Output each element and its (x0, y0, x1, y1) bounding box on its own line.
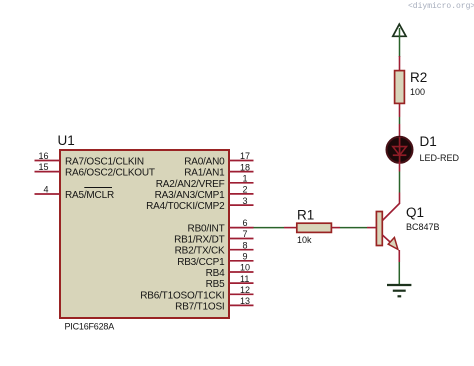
resistor R1 (297, 223, 340, 232)
pin 4 RA5/MCLR (35, 185, 114, 202)
svg-text:16: 16 (38, 151, 48, 161)
svg-text:3: 3 (243, 196, 248, 206)
wire D1 to Q1 collector (399, 162, 401, 204)
transistor Q1 (376, 204, 399, 263)
svg-text:RB3/CCP1: RB3/CCP1 (177, 257, 225, 268)
svg-text:100: 100 (410, 87, 425, 97)
svg-text:2: 2 (243, 185, 248, 195)
svg-text:RB6/T1OSO/T1CKI: RB6/T1OSO/T1CKI (140, 290, 224, 301)
svg-text:R1: R1 (297, 208, 314, 223)
wire R1 to Q1 base (340, 227, 376, 229)
pin 17 RA0/AN0 (184, 151, 253, 167)
svg-text:RA6/OSC2/CLKOUT: RA6/OSC2/CLKOUT (65, 168, 155, 179)
wire U1 pin6 to R1 (253, 227, 297, 229)
svg-text:RB1/RX/DT: RB1/RX/DT (174, 235, 225, 246)
svg-text:R2: R2 (410, 70, 427, 85)
svg-text:10k: 10k (297, 235, 312, 245)
pin 9 RB3/CCP1 (177, 252, 253, 268)
ground (387, 285, 411, 296)
wire emitter to ground (398, 262, 400, 285)
pin 11 RB5 (206, 274, 254, 290)
svg-text:PIC16F628A: PIC16F628A (65, 322, 115, 332)
pin 1 RA2/AN2/VREF (156, 174, 254, 190)
svg-text:RA2/AN2/VREF: RA2/AN2/VREF (156, 179, 225, 190)
svg-text:RA0/AN0: RA0/AN0 (184, 157, 225, 168)
pin 16 RA7/OSC1/CLKIN (35, 151, 144, 168)
svg-text:RB5: RB5 (206, 279, 225, 290)
svg-text:RB2/TX/CK: RB2/TX/CK (175, 246, 225, 257)
svg-text:D1: D1 (420, 134, 437, 149)
svg-text:U1: U1 (58, 133, 75, 148)
power symbol VCC (393, 24, 406, 36)
pin 12 RB6/T1OSO/T1CKI (140, 285, 253, 301)
svg-text:9: 9 (243, 252, 248, 262)
pin 8 RB2/TX/CK (175, 240, 254, 256)
svg-text:RA4/T0CKI/CMP2: RA4/T0CKI/CMP2 (146, 201, 225, 212)
IC U1 body (60, 150, 229, 318)
wire R2 to D1 (399, 117, 401, 137)
svg-text:11: 11 (240, 274, 249, 284)
svg-text:13: 13 (240, 296, 250, 306)
svg-text:<diymicro.org>: <diymicro.org> (408, 2, 474, 11)
svg-text:LED-RED: LED-RED (420, 153, 460, 163)
svg-text:7: 7 (243, 229, 248, 239)
resistor R2 (395, 56, 405, 117)
pin 10 RB4 (206, 263, 254, 279)
svg-text:RA1/AN1: RA1/AN1 (184, 168, 225, 179)
svg-text:12: 12 (240, 285, 250, 295)
svg-text:17: 17 (240, 151, 250, 161)
svg-text:RA3/AN3/CMP1: RA3/AN3/CMP1 (155, 190, 225, 201)
svg-text:18: 18 (240, 162, 250, 172)
pin 15 RA6/OSC2/CLKOUT (35, 162, 155, 179)
svg-text:4: 4 (43, 185, 48, 195)
svg-text:RB0/INT: RB0/INT (188, 223, 225, 234)
pin 18 RA1/AN1 (184, 162, 253, 178)
wire power to R2 (399, 28, 401, 57)
pin 3 RA4/T0CKI/CMP2 (146, 196, 253, 212)
svg-text:6: 6 (243, 218, 248, 228)
svg-text:RA5/MCLR: RA5/MCLR (65, 190, 114, 201)
svg-text:Q1: Q1 (406, 205, 424, 220)
svg-text:15: 15 (38, 162, 48, 172)
pin 2 RA3/AN3/CMP1 (155, 185, 254, 201)
LED D1 (387, 137, 413, 163)
pin 7 RB1/RX/DT (174, 229, 253, 245)
svg-text:RA7/OSC1/CLKIN: RA7/OSC1/CLKIN (65, 157, 144, 168)
svg-text:BC847B: BC847B (406, 222, 440, 232)
svg-text:RB7/T1OSI: RB7/T1OSI (175, 301, 224, 312)
pin 13 RB7/T1OSI (175, 296, 253, 312)
svg-text:10: 10 (240, 263, 250, 273)
svg-text:8: 8 (243, 240, 248, 250)
svg-text:RB4: RB4 (206, 268, 225, 279)
svg-text:1: 1 (243, 174, 248, 184)
pin 6 RB0/INT (188, 218, 254, 234)
